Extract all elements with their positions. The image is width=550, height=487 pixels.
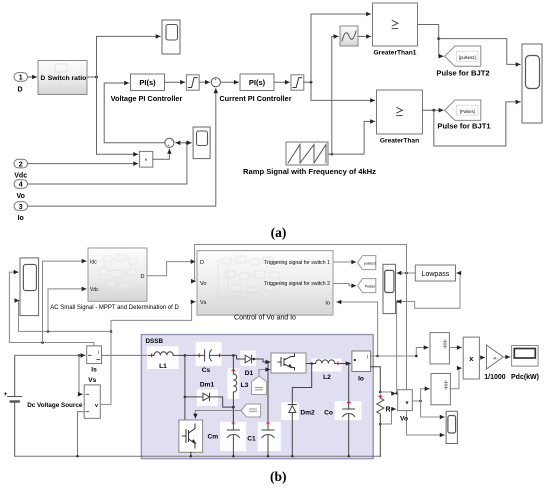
svg-text:v: v xyxy=(95,403,98,409)
wire GT1 branch to scope xyxy=(439,39,521,65)
wire Mean2 to product xyxy=(450,368,461,389)
inductor L2 xyxy=(316,360,351,364)
product block x xyxy=(463,337,479,379)
svg-text:1: 1 xyxy=(19,75,23,82)
capacitor Cs xyxy=(185,350,234,361)
svg-text:Io: Io xyxy=(358,376,364,383)
node R bottom tap xyxy=(379,423,382,426)
svg-text:Vdc: Vdc xyxy=(90,287,99,293)
node before Is xyxy=(78,354,81,357)
dc voltage source battery xyxy=(8,355,22,456)
svg-text:×: × xyxy=(145,158,148,164)
node A xyxy=(376,355,379,358)
ground rail bottom xyxy=(15,455,381,457)
diode Dm1 xyxy=(185,393,234,407)
wire sat2 to branch node xyxy=(304,81,311,83)
wire sat1 to sum2 xyxy=(199,81,209,83)
node Dm2 drop xyxy=(310,362,313,365)
svg-text:Triggering signal for switch 2: Triggering signal for switch 2 xyxy=(264,281,330,287)
svg-text:D: D xyxy=(141,274,145,280)
block Mean1 xyxy=(430,333,449,364)
node Co drop xyxy=(347,362,350,365)
block Lowpass xyxy=(415,265,455,281)
wire R bottom to Vo minus xyxy=(380,409,396,424)
svg-text:Voltage PI Controller: Voltage PI Controller xyxy=(111,94,183,103)
goto tag pulses2 xyxy=(445,46,481,66)
inductor L1 xyxy=(148,352,185,356)
capacitor C1 xyxy=(262,362,274,456)
svg-text:2: 2 xyxy=(19,161,23,168)
subsystem MPPT xyxy=(88,248,147,301)
svg-text:4: 4 xyxy=(19,182,23,189)
wire battery node down to Vs xyxy=(79,355,82,394)
svg-text:v: v xyxy=(406,400,409,406)
wire Vo feedback xyxy=(28,143,187,184)
svg-text:DSSB: DSSB xyxy=(146,338,164,345)
wire CPI to saturation2 xyxy=(274,81,289,83)
wire VPI to saturation1 xyxy=(165,81,185,83)
svg-text:Triggering signal for switch 1: Triggering signal for switch 1 xyxy=(264,260,330,266)
wire D to scope1 xyxy=(97,36,161,77)
node ramp output xyxy=(330,153,333,156)
svg-text:Pulse for BJT1: Pulse for BJT1 xyxy=(437,122,491,131)
svg-text:D: D xyxy=(17,87,22,94)
wire trigger1 to goto xyxy=(333,261,356,263)
svg-text:-K-: -K- xyxy=(493,356,499,361)
svg-text:L2: L2 xyxy=(323,374,331,381)
sum node current loop xyxy=(211,77,220,90)
wire port1 to switch ratio xyxy=(28,76,37,78)
input port 4 Vo xyxy=(14,180,28,200)
node Vo riser top xyxy=(396,300,399,303)
wire Vo riser to lowpass input xyxy=(397,273,460,394)
node D junction xyxy=(95,76,98,79)
block GreaterThan1 xyxy=(373,3,418,46)
wire Vo to Mean2 xyxy=(421,389,430,401)
wire Vo into sum1 xyxy=(176,142,187,144)
gain 1/1000 triangle xyxy=(487,345,504,369)
node Vs bus split xyxy=(110,330,113,333)
svg-text:L3: L3 xyxy=(241,382,249,389)
wire Is out to DSSB rail xyxy=(102,354,149,356)
scope Scope2 xyxy=(193,127,210,159)
svg-text:(a): (a) xyxy=(271,225,287,240)
wire gain to display xyxy=(503,356,510,358)
waveform block xyxy=(340,26,358,46)
wire waveform to GreaterThan1 input2 xyxy=(358,35,371,37)
svg-text:Current PI Controller: Current PI Controller xyxy=(219,94,291,103)
svg-text:GreaterThan1: GreaterThan1 xyxy=(374,50,417,57)
capacitor Co xyxy=(343,364,355,457)
svg-text:Io: Io xyxy=(325,301,330,307)
diode D1 xyxy=(233,355,266,363)
wire Io power out to R xyxy=(371,367,381,392)
ramp signal block xyxy=(286,142,328,165)
svg-text:+: + xyxy=(4,391,8,398)
wire IGBT2 out xyxy=(306,363,316,365)
svg-text:Dm2: Dm2 xyxy=(300,410,315,417)
goto tag switch2 xyxy=(358,279,376,293)
wire Is measurement up to bus xyxy=(9,272,94,346)
svg-text:Vs: Vs xyxy=(88,377,96,384)
wire IGBT1 emitter to rail xyxy=(190,452,192,456)
wire ramp to GreaterThan input2 xyxy=(332,121,375,154)
wire R top to Vo plus xyxy=(380,392,396,394)
product block xyxy=(140,151,153,167)
sum node wire to voltage PI xyxy=(104,83,165,143)
svg-text:Lowpass: Lowpass xyxy=(422,271,450,278)
svg-text:(b): (b) xyxy=(270,469,287,484)
wire node A up to control Io xyxy=(377,302,379,356)
wire L1 node down to IGBT1 xyxy=(184,355,186,420)
svg-text:[pulses2]: [pulses2] xyxy=(459,55,476,60)
svg-text:Is: Is xyxy=(91,367,97,374)
wire into IGBT2 xyxy=(268,361,270,363)
wire Vo signal out xyxy=(412,400,420,402)
from tag gate1 xyxy=(241,404,261,417)
wire Io feedback into control xyxy=(337,301,378,303)
node Vdc tap xyxy=(47,330,50,333)
node GT branch xyxy=(432,109,435,112)
svg-text:[Pulses]: [Pulses] xyxy=(460,109,475,114)
wire switch ratio output xyxy=(87,76,97,78)
svg-text:3: 3 xyxy=(19,204,23,211)
component white patches xyxy=(147,342,362,451)
svg-text:Co: Co xyxy=(324,410,333,417)
wire Io signal out xyxy=(371,355,378,357)
voltage sensor Vs xyxy=(84,385,100,418)
wire Io to sum2 xyxy=(28,89,216,207)
wire Idc tap to MPPT xyxy=(43,261,87,342)
svg-text:D1: D1 xyxy=(245,370,254,377)
svg-text:Pdc(kW): Pdc(kW) xyxy=(511,374,539,381)
svg-text:R: R xyxy=(385,407,390,414)
node Vo signal xyxy=(419,400,422,403)
svg-text:Control of Vo and Io: Control of Vo and Io xyxy=(234,315,296,322)
wire vo feedback long xyxy=(195,245,407,282)
wire D to control xyxy=(147,262,195,276)
wire into Io xyxy=(349,363,351,365)
scope output small xyxy=(446,411,457,443)
goto tag Pulses xyxy=(445,100,481,120)
rail junction dots xyxy=(76,455,350,457)
wire D down to product xyxy=(97,77,138,154)
DSSB converter box xyxy=(141,335,373,459)
node Vo plus junction xyxy=(395,392,397,394)
svg-text:Vo: Vo xyxy=(16,193,24,200)
block GreaterThan xyxy=(377,90,423,134)
subsystem D Switch ratio xyxy=(38,61,87,95)
scope output pulses xyxy=(522,44,542,123)
wire Vs minus to ground rail xyxy=(78,412,85,457)
svg-text:PI(s): PI(s) xyxy=(139,78,156,87)
svg-text:Dm1: Dm1 xyxy=(200,382,215,389)
svg-text:Pulses: Pulses xyxy=(365,285,375,289)
current sensor Io xyxy=(352,351,371,372)
svg-text:Idc: Idc xyxy=(90,259,97,265)
svg-text:Pulse for BJT2: Pulse for BJT2 xyxy=(436,69,489,78)
svg-text:D: D xyxy=(41,75,46,82)
wire gate2 to IGBT2 xyxy=(259,370,270,377)
voltage sensor Vo xyxy=(398,390,413,411)
wire sum2 to current PI xyxy=(221,81,239,83)
input port 1 D xyxy=(14,73,28,94)
saturation block 2 xyxy=(291,75,304,90)
wire product to sum1 xyxy=(153,149,170,159)
svg-text:Vs: Vs xyxy=(200,300,207,306)
subsystem Control of Vo and Io xyxy=(197,251,333,316)
wire Vdc to product xyxy=(28,163,138,165)
svg-text:Io: Io xyxy=(18,215,24,222)
node C1 drop xyxy=(267,361,270,364)
block Voltage PI(s) xyxy=(131,74,165,91)
resistor R xyxy=(377,396,384,456)
scope Is Vs xyxy=(20,258,39,316)
svg-text:Ramp Signal with Frequency of: Ramp Signal with Frequency of 4kHz xyxy=(243,167,376,176)
saturation block 1 xyxy=(186,75,199,90)
svg-text:D: D xyxy=(200,260,204,266)
sum node voltage loop xyxy=(165,138,174,148)
wire Vs bus to scope and Vdc xyxy=(19,301,112,332)
node lowpass output tap xyxy=(405,272,408,275)
wire riser into scope lower xyxy=(397,301,400,303)
wire gate1 to IGBT1 xyxy=(195,411,241,419)
from tag gate2 xyxy=(252,376,267,394)
wire control to GreaterThan input1 xyxy=(311,82,375,100)
svg-text:Switch ratio: Switch ratio xyxy=(48,75,87,82)
block Current PI(s) xyxy=(240,74,274,91)
node Cs D1 L3 xyxy=(232,354,235,357)
svg-text:Vo: Vo xyxy=(400,416,408,423)
node Dm1 right xyxy=(232,406,235,409)
scope Scope1 xyxy=(162,20,180,54)
svg-text:PI(s): PI(s) xyxy=(249,78,266,87)
wire Vs signal to bus xyxy=(100,302,195,405)
capacitor Cm xyxy=(227,407,239,456)
wire node A to Mean1 xyxy=(378,348,429,357)
svg-text:pulses2: pulses2 xyxy=(364,261,376,265)
svg-text:Cm: Cm xyxy=(207,434,218,441)
wire trigger2 to goto xyxy=(333,284,356,286)
svg-text:1/1000: 1/1000 xyxy=(484,374,506,381)
svg-text:GreaterThan: GreaterThan xyxy=(380,138,419,145)
svg-text:Vdc: Vdc xyxy=(14,173,27,180)
current sensor Is xyxy=(87,346,102,364)
inductor L3 vertical xyxy=(233,355,236,421)
svg-text:Vo: Vo xyxy=(200,281,206,287)
svg-text:AC Small Signal - MPPT and Det: AC Small Signal - MPPT and Determination… xyxy=(50,305,179,311)
node Idc tap xyxy=(41,341,44,344)
wire GreaterThan1 to goto pulses2 xyxy=(418,25,444,57)
wire product to gain xyxy=(479,357,484,359)
input port 3 Io xyxy=(14,202,28,222)
scope flipped xyxy=(383,264,396,313)
node D1 out xyxy=(253,358,256,361)
wire Vo to scope3 xyxy=(421,401,445,417)
goto tag switch1 xyxy=(358,256,376,270)
wire long vertical to scope3 xyxy=(407,273,445,435)
wire GreaterThan to goto Pulses xyxy=(422,109,443,111)
wire Vo into scope2 xyxy=(187,142,191,144)
wire Vdc tap to MPPT xyxy=(48,289,86,332)
node meanfeed xyxy=(415,355,418,358)
wire ramp to waveform block xyxy=(328,36,338,154)
input port 2 Vdc xyxy=(14,159,28,179)
svg-text:L1: L1 xyxy=(159,363,167,370)
diode Dm2 vertical xyxy=(288,364,311,457)
wire battery top to Is xyxy=(15,354,85,356)
IGBT switch 2 xyxy=(271,353,306,373)
wire control to GreaterThan1 input1 xyxy=(311,14,371,82)
wire GT branch to scope input2 xyxy=(434,102,520,146)
block Mean2 xyxy=(431,374,450,405)
red connection markers xyxy=(150,354,381,424)
IGBT switch 1 xyxy=(179,420,203,452)
node control signal xyxy=(310,81,313,84)
node Vo branch xyxy=(186,141,189,144)
wire lowpass output to scope upper xyxy=(397,272,415,274)
svg-text:Cs: Cs xyxy=(202,367,211,374)
node after L1 xyxy=(184,354,187,357)
node GT1 branch xyxy=(437,37,440,40)
display Pdc xyxy=(512,346,538,367)
svg-text:Dc Voltage Source: Dc Voltage Source xyxy=(27,402,83,409)
wire Mean1 to product xyxy=(449,347,461,349)
node R top tap xyxy=(379,391,382,394)
node Dm1 left xyxy=(184,396,187,399)
svg-text:C1: C1 xyxy=(247,436,256,443)
